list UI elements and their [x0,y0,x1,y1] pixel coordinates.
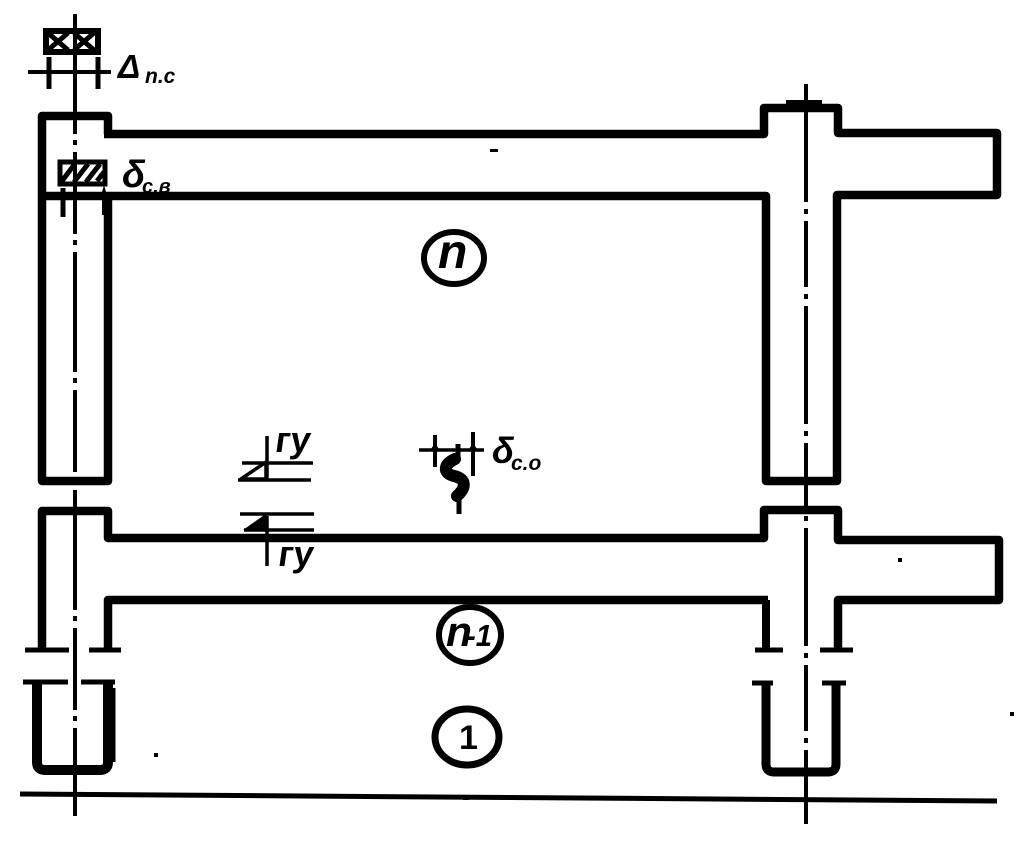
svg-text:-1: -1 [466,618,492,653]
svg-text:Δ: Δ [116,48,140,85]
svg-text:1: 1 [459,719,478,757]
svg-text:гу: гу [273,419,314,460]
svg-text:c.o: c.o [511,452,542,475]
svg-text:n: n [438,226,467,279]
svg-text:n.c: n.c [145,65,176,88]
svg-text:гу: гу [276,533,317,574]
svg-text:c.в: c.в [142,176,171,198]
